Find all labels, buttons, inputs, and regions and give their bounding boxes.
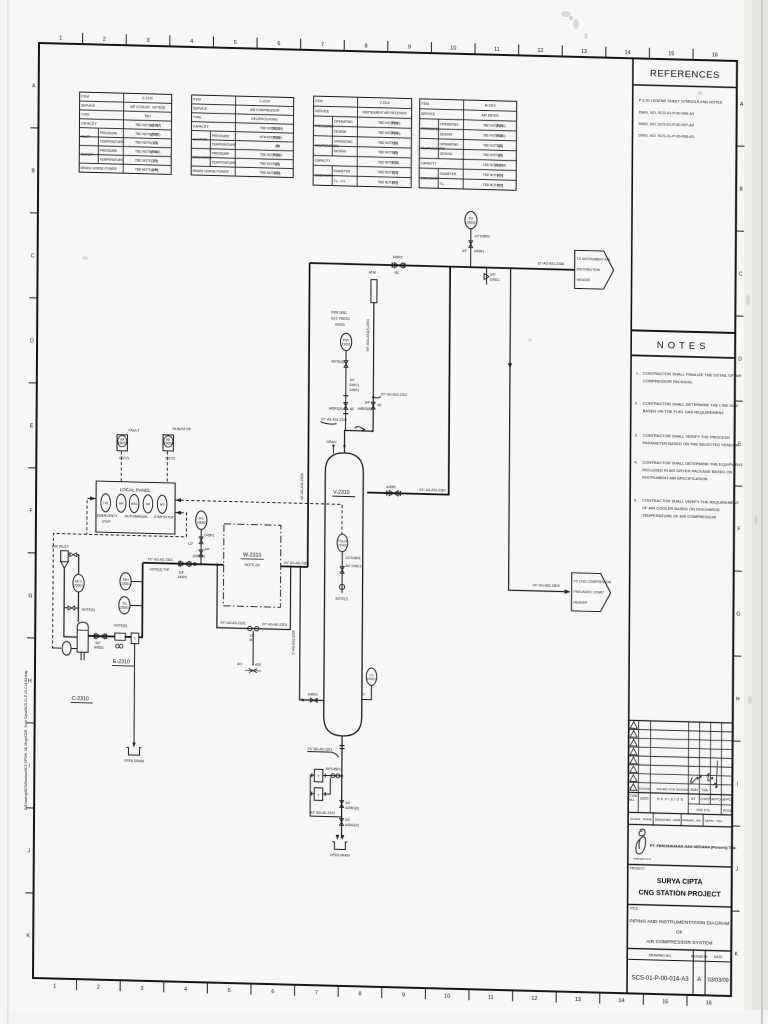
svg-text:DISTRIBUTION: DISTRIBUTION [577, 267, 601, 272]
references box header [633, 68, 737, 88]
svg-text:TYPE: TYPE [81, 113, 89, 117]
wire trap loop [310, 775, 342, 817]
svg-text:PROJECT :: PROJECT : [630, 866, 647, 870]
svg-text:PNEUMATIC START: PNEUMATIC START [574, 590, 605, 595]
svg-text:3/4": 3/4" [345, 801, 351, 805]
instrument PSV bubble [340, 333, 351, 350]
instrument LG bubble [362, 668, 377, 700]
svg-text:1: 1 [53, 984, 56, 990]
svg-text:NC: NC [395, 271, 400, 275]
svg-text:TEMPERATURE: TEMPERATURE [212, 160, 236, 165]
svg-text:3/4": 3/4" [365, 400, 371, 404]
ruler ticks and numbers top [83, 33, 693, 60]
svg-text:I: I [29, 763, 30, 769]
svg-text:NC: NC [350, 407, 355, 411]
table V-2310 air receiver data [313, 96, 412, 188]
valve vent NC [358, 400, 383, 411]
wire dashed signal fault to panel [120, 451, 122, 482]
svg-text:D45R1: D45R1 [308, 693, 318, 697]
svg-text:C: C [739, 272, 743, 278]
table C-2310 air compressor data [191, 95, 294, 178]
svg-text:(F): (F) [393, 141, 397, 145]
svg-text:NO.: NO. [629, 798, 635, 802]
svg-text:V-2310: V-2310 [380, 101, 390, 105]
svg-text:D45R1: D45R1 [204, 533, 214, 537]
svg-text:PRESSURE: PRESSURE [421, 127, 439, 131]
svg-text:23001: 23001 [120, 606, 129, 610]
vent silencer [368, 271, 377, 303]
svg-text:(F): (F) [393, 151, 397, 155]
svg-text:TEMPERATURE: TEMPERATURE [100, 140, 124, 145]
svg-text:RECIPROCATING: RECIPROCATING [251, 117, 278, 122]
valve stack under header PG [462, 229, 490, 268]
svg-text:START/STOP: START/STOP [154, 515, 174, 520]
svg-text:SERVICE: SERVICE [193, 107, 207, 111]
svg-text:12: 12 [531, 996, 537, 1002]
svg-text:XX"-AG-AS1-23D9: XX"-AG-AS1-23D9 [533, 583, 560, 588]
label vent branch leader [372, 392, 407, 399]
wire main process line to dryer [143, 563, 308, 567]
svg-text:DESIGN: DESIGN [334, 149, 347, 153]
svg-text:(PSIG): (PSIG) [496, 134, 506, 138]
svg-text:E-2310: E-2310 [113, 659, 130, 665]
svg-text:TEMPERATURE: TEMPERATURE [100, 158, 124, 163]
svg-text:PRESSURE: PRESSURE [100, 131, 118, 135]
table M-2310 air dryer data [419, 99, 517, 191]
svg-text:C-2310: C-2310 [259, 99, 270, 103]
svg-text:6: 6 [277, 41, 280, 47]
svg-text:DRAIN: DRAIN [326, 440, 337, 444]
separator pot [131, 633, 139, 644]
compressor C-2310 [77, 622, 88, 660]
svg-text:XX"-AG-AD-23D3: XX"-AG-AD-23D3 [262, 622, 287, 627]
right column divider [627, 58, 633, 993]
svg-text:G: G [28, 593, 32, 599]
svg-text:1/2": 1/2" [188, 542, 194, 546]
svg-text:NOTE(3): NOTE(3) [82, 608, 95, 612]
instrument TAH bubble [120, 573, 143, 591]
svg-text:03/03/09: 03/03/09 [708, 977, 729, 984]
valve stack under PSH [335, 552, 361, 602]
svg-text:0: 0 [629, 786, 631, 790]
svg-text:ADM: ADM [690, 788, 698, 792]
svg-text:1/2"D45R3: 1/2"D45R3 [474, 234, 490, 238]
steam trap box 2 [312, 777, 331, 800]
svg-text:(PSIG): (PSIG) [273, 135, 283, 139]
svg-text:LOCAL PANEL: LOCAL PANEL [120, 487, 151, 493]
wire fill line to vessel [298, 566, 324, 702]
svg-text:OF: OF [676, 930, 683, 936]
svg-text:(F): (F) [498, 144, 502, 148]
valve drain 2 [340, 818, 359, 827]
svg-text:AIR DRYER: AIR DRYER [481, 114, 499, 118]
svg-text:(SCFM): (SCFM) [150, 123, 161, 127]
svg-text:AIR COMPRESSOR: AIR COMPRESSOR [250, 108, 280, 113]
svg-text:CAPACITY: CAPACITY [81, 121, 98, 125]
svg-text:NOTE(7): NOTE(7) [335, 597, 348, 601]
svg-text:1.: 1. [636, 370, 639, 375]
svg-text:NOTE(4): NOTE(4) [331, 360, 344, 364]
svg-text:(HP): (HP) [274, 171, 281, 175]
instrument HS run/stop square [163, 427, 192, 461]
svg-text:14: 14 [625, 50, 631, 56]
label V-2310 [332, 490, 355, 497]
svg-text:F: F [29, 508, 32, 514]
svg-text:23001: 23001 [121, 582, 130, 586]
svg-text:XX"-AS-AS1-23X2: XX"-AS-AS1-23X2 [381, 392, 408, 397]
svg-text:10"-AG-AS1-23DB: 10"-AG-AS1-23DB [538, 261, 564, 266]
label pipe disc ext press hood [331, 311, 350, 327]
svg-text:11: 11 [488, 995, 494, 1001]
instrument PG header bubble [465, 211, 477, 229]
svg-text:A45R2: A45R2 [393, 255, 403, 259]
svg-text:ISSUED FOR REVIEW: ISSUED FOR REVIEW [656, 787, 688, 792]
svg-text:13: 13 [575, 997, 581, 1003]
junction dot main line PG [200, 563, 202, 565]
valve main line A45R1 [178, 561, 192, 579]
svg-text:HH: HH [146, 502, 151, 506]
svg-text:REFERENCES: REFERENCES [650, 68, 720, 81]
svg-text:D:\Drawing\SCS\Gambar\SCS CPDW: D:\Drawing\SCS\Gambar\SCS CPDW. 08. Mngr… [24, 670, 28, 810]
svg-text:1/2": 1/2" [249, 634, 255, 638]
svg-text:7: 7 [315, 990, 318, 996]
label C-2310 [71, 696, 93, 703]
panel pushbutton HS3 [129, 494, 139, 512]
svg-text:CAPACITY: CAPACITY [315, 159, 332, 163]
svg-text:A45R1(X): A45R1(X) [345, 806, 359, 810]
valve drain 1 [340, 800, 360, 810]
local panel box [96, 481, 175, 534]
svg-text:(F): (F) [153, 141, 157, 145]
svg-text:3/4"D45D1: 3/4"D45D1 [325, 767, 341, 771]
wire vessel bottom drain [340, 736, 343, 838]
svg-text:CNC DTC: CNC DTC [696, 808, 711, 812]
svg-text:ACI: ACI [237, 662, 242, 666]
svg-text:APP'D: APP'D [722, 798, 732, 802]
svg-text:XX"-AG-AD-23D1: XX"-AG-AD-23D1 [148, 557, 173, 562]
svg-text:NOTE(2) TYP.: NOTE(2) TYP. [150, 567, 170, 572]
PGN logo [636, 829, 646, 854]
flange pair drain [340, 745, 345, 749]
svg-text:DESIGN: DESIGN [440, 132, 453, 136]
svg-text:A45R1: A45R1 [178, 575, 188, 579]
svg-text:ITEM: ITEM [315, 99, 323, 103]
panel pushbutton HS1 [101, 494, 111, 512]
svg-text:A45D1: A45D1 [94, 646, 104, 650]
svg-text:ITEM: ITEM [421, 102, 429, 106]
svg-text:DATE: DATE [640, 797, 648, 801]
svg-text:XX"-VAS-AS1(X)-23X1: XX"-VAS-AS1(X)-23X1 [366, 319, 370, 352]
svg-text:ITEM: ITEM [193, 98, 201, 102]
svg-text:APP'D : TSA: APP'D : TSA [705, 819, 724, 823]
revision triangles [630, 722, 637, 791]
svg-text:TSA: TSA [701, 788, 708, 792]
svg-text:TITLE :: TITLE : [630, 906, 641, 910]
svg-text:AUTO/MANUAL: AUTO/MANUAL [125, 514, 148, 519]
label line number AG-AD [148, 557, 174, 572]
wire vessel top to psv line [343, 429, 373, 453]
svg-text:23002: 23002 [164, 441, 173, 445]
svg-text:1": 1" [363, 692, 366, 696]
svg-text:4: 4 [190, 39, 193, 45]
revision table [628, 720, 733, 827]
svg-text:16: 16 [706, 1000, 712, 1006]
valve fill line D45R1 [308, 693, 318, 703]
ruler ticks sides [26, 128, 745, 911]
svg-text:D45C1: D45C1 [349, 383, 359, 387]
svg-text:3/4": 3/4" [462, 249, 468, 253]
vessel top vent nozzle [326, 440, 337, 454]
ruler ticks and numbers bottom [77, 979, 687, 1006]
svg-text:10: 10 [444, 994, 450, 1000]
svg-text:H: H [736, 697, 740, 703]
svg-text:6: 6 [271, 989, 274, 995]
svg-text:H: H [28, 678, 32, 684]
svg-text:9: 9 [402, 993, 405, 999]
svg-text:13: 13 [581, 49, 587, 55]
svg-text:3: 3 [140, 986, 143, 992]
svg-text:PRESSURE: PRESSURE [212, 152, 230, 156]
svg-text:INLET: INLET [81, 135, 90, 139]
svg-text:T: T [134, 637, 136, 641]
instrument XA fault square [117, 428, 140, 461]
svg-text:9: 9 [408, 45, 411, 51]
svg-text:5: 5 [234, 40, 237, 46]
svg-text:G: G [736, 612, 740, 618]
svg-text:23001: 23001 [367, 677, 376, 681]
svg-text:(PSIG): (PSIG) [272, 153, 282, 157]
svg-text:AIR INLET: AIR INLET [52, 544, 70, 548]
svg-text:(F): (F) [275, 162, 279, 166]
svg-text:3/4" D45C1: 3/4" D45C1 [345, 564, 362, 568]
svg-text:23003: 23003 [118, 441, 127, 445]
svg-text:1/2"D45R1: 1/2"D45R1 [345, 556, 361, 560]
valve stack under PG panel [188, 529, 215, 565]
svg-text:CHK'D: CHK'D [700, 797, 710, 801]
label drain line number [307, 747, 338, 757]
svg-text:2.: 2. [635, 400, 638, 405]
svg-text:(F): (F) [498, 154, 502, 158]
svg-text:D: D [30, 338, 34, 344]
panel pushbutton HS2 [116, 494, 126, 512]
svg-text:ITEM: ITEM [81, 95, 89, 99]
svg-text:SERVICE: SERVICE [421, 112, 435, 116]
air dryer package box W-2310 [223, 524, 281, 607]
svg-text:3/4": 3/4" [95, 641, 101, 645]
air cooler E-2310 [114, 624, 127, 649]
valve header A45R2 NC [392, 255, 406, 275]
svg-text:DRAWN : IPA: DRAWN : IPA [682, 818, 702, 823]
svg-text:A45R2(B): A45R2(B) [358, 407, 372, 411]
svg-text:SURYA CIPTA: SURYA CIPTA [657, 878, 703, 886]
open drain funnel vessel [330, 835, 351, 858]
svg-text:PRESSURE: PRESSURE [100, 149, 118, 153]
svg-text:V-2310: V-2310 [333, 490, 350, 496]
svg-text:HOOD: HOOD [335, 323, 345, 327]
svg-text:W-2310: W-2310 [243, 552, 261, 558]
svg-text:7: 7 [321, 42, 324, 48]
svg-text:DATE: DATE [714, 955, 724, 959]
svg-text:NC: NC [377, 403, 382, 407]
svg-text:2: 2 [97, 985, 100, 991]
svg-text:3/4": 3/4" [349, 378, 355, 382]
svg-text:(D45CX): (D45CX) [193, 554, 205, 558]
steam trap box 1 [312, 769, 326, 782]
svg-text:10"-AG-AS1-23DB: 10"-AG-AS1-23DB [300, 473, 304, 500]
svg-text:(PSIG): (PSIG) [150, 150, 160, 154]
svg-text:3: 3 [146, 38, 149, 44]
utility connection ACI AISI [237, 662, 261, 673]
svg-text:PRESSURE: PRESSURE [315, 124, 333, 128]
svg-text:16: 16 [712, 52, 718, 58]
svg-text:DRAWING NO.: DRAWING NO. [649, 953, 672, 958]
valve inlet [68, 553, 77, 557]
svg-text:5: 5 [228, 988, 231, 994]
wire dashed signal panel left [87, 496, 96, 534]
svg-text:OPEN DRAIN: OPEN DRAIN [330, 853, 351, 858]
svg-text:OPERATING: OPERATING [334, 120, 353, 124]
svg-text:DIMENSION: DIMENSION [421, 176, 440, 180]
check valve stub header [484, 268, 500, 285]
svg-text:(F): (F) [153, 159, 157, 163]
svg-text:RUN/STOP: RUN/STOP [173, 427, 192, 431]
svg-text:DESIGNED : ADM: DESIGNED : ADM [655, 818, 681, 823]
svg-text:23002: 23002 [197, 521, 206, 525]
svg-text:DIAMETER: DIAMETER [334, 169, 351, 173]
svg-text:14: 14 [618, 998, 624, 1004]
wire separator drain [132, 644, 136, 748]
svg-text:11: 11 [494, 47, 500, 53]
wire dryer bypass [217, 565, 291, 630]
main header line [310, 263, 575, 270]
svg-text:OPERATING: OPERATING [440, 142, 459, 146]
svg-text:NOTES: NOTES [657, 340, 710, 352]
svg-text:(PSIG): (PSIG) [151, 132, 161, 136]
svg-text:OPERATING: OPERATING [440, 122, 459, 126]
wire header to cng flag [506, 268, 572, 594]
svg-text:D45D1: D45D1 [490, 278, 500, 282]
svg-text:APP'D: APP'D [711, 797, 721, 801]
svg-text:(F): (F) [275, 144, 279, 148]
svg-text:(FT): (FT) [392, 171, 398, 175]
wire riser to header [308, 263, 310, 567]
wire compressor discharge [88, 636, 131, 637]
signatures [690, 760, 717, 788]
svg-text:D45R1: D45R1 [349, 388, 359, 392]
svg-text:HH: HH [119, 502, 124, 506]
svg-text:(FT): (FT) [497, 183, 503, 187]
valve stack under PSV [329, 350, 360, 431]
svg-text:www.pgn.co.id: www.pgn.co.id [634, 856, 651, 860]
svg-text:12: 12 [537, 48, 543, 54]
svg-text:8: 8 [364, 43, 367, 49]
svg-text:PRESSURE: PRESSURE [212, 134, 230, 138]
svg-text:XX"-BD-AD-23X1: XX"-BD-AD-23X1 [307, 747, 332, 752]
wire vessel outlet to header [367, 265, 450, 495]
svg-text:CAPACITY: CAPACITY [421, 161, 438, 165]
svg-text:HS: HS [103, 501, 107, 505]
wire dashed signal runstop to panel [166, 451, 168, 483]
svg-text:CAPACITY: CAPACITY [193, 124, 210, 128]
svg-text:DESIGN: DESIGN [440, 152, 453, 156]
valve pair drain tee [323, 767, 343, 778]
svg-text:D: D [738, 357, 742, 363]
svg-text:OPEN DRAIN: OPEN DRAIN [124, 759, 145, 764]
svg-text:OUTLET: OUTLET [81, 153, 94, 157]
svg-text:TEMPERATURE: TEMPERATURE [315, 144, 339, 149]
svg-text:SERVICE: SERVICE [315, 109, 329, 113]
svg-text:(SCFM): (SCFM) [272, 126, 283, 130]
air inlet filter F1 [61, 551, 69, 569]
svg-text:HEADER: HEADER [577, 278, 591, 282]
svg-text:3/4": 3/4" [204, 547, 210, 551]
svg-text:10: 10 [450, 46, 456, 52]
svg-text:(HP): (HP) [152, 168, 159, 172]
svg-text:(PSIG): (PSIG) [496, 124, 506, 128]
svg-text:D45R1: D45R1 [474, 249, 484, 253]
svg-text:(SCFM): (SCFM) [495, 163, 506, 167]
svg-text:E-2310: E-2310 [143, 96, 154, 100]
panel button labels [97, 514, 174, 526]
svg-text:I: I [737, 782, 738, 788]
instrument PG panel bubble [196, 511, 207, 530]
notes text [634, 370, 744, 520]
svg-text:EXT. PRESS: EXT. PRESS [331, 317, 349, 321]
label psv inlet line [321, 417, 348, 424]
svg-text:SUCTION: SUCTION [193, 138, 208, 142]
svg-text:T: T [318, 775, 320, 779]
svg-text:XX"-AG-AD-23D2: XX"-AG-AD-23D2 [220, 621, 245, 626]
svg-text:HSS: HSS [131, 502, 138, 506]
svg-text:TEMPERATURE: TEMPERATURE [421, 147, 445, 152]
svg-text:REVISION: REVISION [691, 954, 708, 958]
svg-text:(PSIG): (PSIG) [391, 131, 401, 135]
valve suction note3 [64, 606, 95, 612]
svg-text:02/02/09: 02/02/09 [639, 787, 650, 791]
svg-text:A45R2: A45R2 [386, 485, 396, 489]
instrument PSH in vessel [337, 534, 348, 552]
svg-text:23001: 23001 [342, 342, 351, 346]
svg-text:3/4": 3/4" [345, 818, 351, 822]
svg-text:T-L: T-L [440, 182, 445, 186]
svg-text:23001: 23001 [338, 543, 347, 547]
svg-text:TBD: TBD [144, 114, 151, 118]
svg-text:EMERGENCY: EMERGENCY [97, 514, 118, 519]
svg-text:XX"-AS-AS1-23X1: XX"-AS-AS1-23X1 [321, 417, 348, 422]
svg-text:C2CS1: C2CS1 [165, 456, 176, 460]
vessel V-2310 air receiver [324, 452, 364, 736]
svg-text:STOP: STOP [102, 520, 111, 524]
svg-text:5.: 5. [634, 497, 637, 502]
svg-text:3.: 3. [635, 432, 638, 437]
svg-text:PGLB: PGLB [723, 809, 732, 813]
svg-text:NOTE(5): NOTE(5) [114, 624, 127, 628]
label E-2310 [112, 659, 134, 666]
svg-text:HEADER: HEADER [573, 600, 587, 604]
notes header [631, 330, 735, 358]
panel pushbutton HS4 [143, 495, 153, 513]
flag to cng compressor pneumatic start header [571, 573, 611, 612]
wire filter bottom drop [64, 568, 78, 637]
table E-2310 air cooler data [79, 92, 172, 174]
svg-text:23001: 23001 [74, 583, 83, 587]
svg-text:1"-AG-AS1-23D6: 1"-AG-AS1-23D6 [292, 630, 296, 655]
valve vessel outlet [386, 485, 401, 496]
svg-text:SERVICE: SERVICE [81, 104, 95, 108]
svg-text:15: 15 [668, 51, 674, 57]
svg-text:(PSIG): (PSIG) [391, 121, 401, 125]
valve discharge [94, 633, 108, 649]
